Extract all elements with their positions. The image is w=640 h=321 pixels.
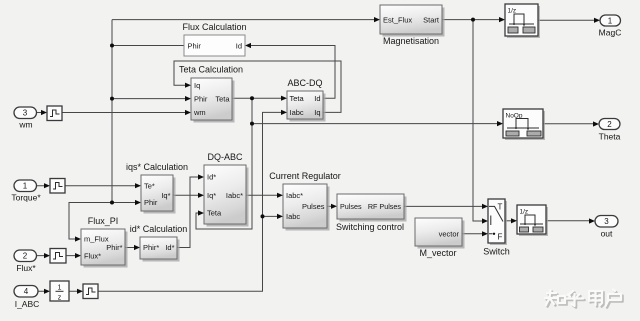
- svg-text:Torque*: Torque*: [11, 193, 41, 203]
- svg-text:Magnetisation: Magnetisation: [383, 36, 439, 46]
- input port 2 Flux*: [14, 250, 37, 273]
- svg-text:Phir*: Phir*: [106, 243, 122, 252]
- junction Teta to ABC-DQ: [250, 96, 254, 100]
- wire Phir net (Flux Calc output to Magnetisation, Teta Calc, iqs* Calc, Flux_PI): [69, 17, 380, 242]
- svg-text:Flux_PI: Flux_PI: [88, 216, 119, 226]
- wire Flux* port to Flux_PI: [37, 253, 82, 258]
- wire M_vector to Switch F input: [462, 231, 488, 236]
- svg-text:out: out: [601, 229, 613, 239]
- block iqs* Calculation: [126, 162, 188, 214]
- junction Phir bottom split: [110, 201, 114, 205]
- svg-text:Iabc*: Iabc*: [226, 191, 243, 200]
- svg-text:I_ABC: I_ABC: [15, 299, 40, 309]
- svg-text:Phir: Phir: [144, 198, 158, 207]
- svg-text:Phir: Phir: [188, 41, 202, 50]
- block Switching control: [336, 194, 407, 232]
- svg-text:Id: Id: [314, 94, 320, 103]
- svg-text:Iq*: Iq*: [207, 191, 216, 200]
- block DQ-ABC: [204, 152, 249, 227]
- svg-text:Est_Flux: Est_Flux: [383, 15, 412, 24]
- svg-text:Teta: Teta: [215, 94, 230, 103]
- svg-text:Pulses: Pulses: [340, 202, 362, 211]
- svg-text:ABC-DQ: ABC-DQ: [287, 78, 322, 88]
- wire RF Pulses to Switch T input: [404, 204, 488, 209]
- wire iqs* Calculation Iq* to DQ-ABC: [173, 193, 204, 198]
- svg-text:T: T: [498, 203, 503, 212]
- input port 4 I_ABC: [14, 286, 39, 310]
- svg-text:Flux*: Flux*: [84, 251, 101, 260]
- svg-text:Pulses: Pulses: [302, 202, 325, 211]
- block rate transition 1/z top: [505, 4, 540, 38]
- svg-text:1/z: 1/z: [520, 209, 529, 216]
- svg-text:vector: vector: [439, 230, 460, 239]
- junction Phir to Teta Calc: [110, 97, 114, 101]
- wire DQ-ABC Iabc* to Current Regulator: [246, 193, 283, 198]
- wire Current Regulator Pulses to Switching control: [327, 204, 337, 209]
- svg-text:Te*: Te*: [144, 181, 155, 190]
- svg-text:wm: wm: [193, 108, 206, 117]
- svg-text:Teta Calculation: Teta Calculation: [179, 65, 243, 75]
- block Flux_PI: [81, 216, 128, 268]
- input port 3 wm: [14, 107, 37, 130]
- svg-text:MagC: MagC: [599, 28, 622, 38]
- svg-text:4: 4: [24, 287, 29, 296]
- svg-text:2: 2: [23, 252, 28, 261]
- svg-text:Teta: Teta: [290, 94, 305, 103]
- svg-text:Teta: Teta: [207, 209, 222, 218]
- block Teta Calculation: [179, 65, 243, 123]
- svg-text:Id*: Id*: [165, 243, 174, 252]
- wire wm port to Teta Calculation: [37, 110, 192, 115]
- svg-text:Flux Calculation: Flux Calculation: [182, 22, 246, 32]
- svg-text:Switching control: Switching control: [336, 222, 404, 232]
- wire Flux_PI Phir* to id* Calculation: [125, 245, 140, 250]
- svg-text:Iq: Iq: [194, 81, 200, 90]
- svg-text:Id*: Id*: [207, 173, 216, 182]
- svg-text:RF Pulses: RF Pulses: [368, 202, 402, 211]
- wire Iq feedback ABC-DQ to Teta Calculation: [174, 61, 341, 112]
- wire NoOp to Theta port: [543, 121, 599, 126]
- svg-text:Phir: Phir: [194, 94, 208, 103]
- block Current Regulator: [269, 171, 341, 231]
- block Switch: [483, 199, 510, 257]
- svg-text:Start: Start: [423, 15, 440, 24]
- svg-text:Theta: Theta: [599, 132, 621, 142]
- block id* Calculation: [130, 224, 188, 262]
- svg-text:m_Flux: m_Flux: [84, 235, 109, 244]
- svg-text:Iq*: Iq*: [161, 191, 170, 200]
- output port 2 Theta: [599, 119, 621, 142]
- svg-text:Switch: Switch: [483, 247, 510, 257]
- svg-text:Id: Id: [236, 41, 242, 50]
- wire Torque* port to iqs* Calculation: [37, 183, 142, 188]
- wire Id feedback ABC-DQ to Flux Calculation: [245, 43, 335, 98]
- svg-text:Iabc: Iabc: [286, 212, 300, 221]
- svg-text:F: F: [498, 233, 503, 242]
- wire rate transition to out port: [546, 218, 595, 223]
- block rate transition 1/z bottom: [517, 205, 548, 236]
- pulse block after unit delay I_ABC: [83, 284, 98, 299]
- input port 1 Torque*: [11, 180, 41, 203]
- svg-text:DQ-ABC: DQ-ABC: [207, 152, 243, 162]
- svg-text:1/z: 1/z: [508, 8, 517, 15]
- svg-text:2: 2: [607, 120, 612, 129]
- svg-text:wm: wm: [18, 120, 32, 130]
- output port 3 out: [595, 216, 618, 239]
- svg-text:3: 3: [23, 109, 28, 118]
- pulse block after Flux* port: [50, 249, 66, 264]
- svg-text:1: 1: [58, 285, 62, 292]
- watermark 知乎用户: [545, 290, 623, 308]
- wire Teta net (Teta Calc to ABC-DQ, NoOp, DQ-ABC): [196, 96, 503, 229]
- output port 1 MagC: [599, 15, 622, 38]
- svg-text:Flux*: Flux*: [16, 263, 36, 273]
- svg-text:M_vector: M_vector: [419, 248, 456, 258]
- junction Start split: [471, 18, 475, 22]
- junction Iabc to Current Regulator: [261, 214, 265, 218]
- svg-text:Iq: Iq: [314, 108, 320, 117]
- wire I_ABC net (port 4 through delay to ABC-DQ Iabc and Current Regulator): [39, 110, 288, 294]
- svg-text:Phir*: Phir*: [143, 243, 159, 252]
- junction Teta to NoOp: [250, 122, 254, 126]
- svg-text:Current Regulator: Current Regulator: [269, 171, 341, 181]
- block M_vector: [415, 218, 465, 258]
- wire id* Calculation Id* to DQ-ABC: [177, 174, 204, 247]
- block NoOp: [503, 109, 545, 140]
- block Flux Calculation: [182, 22, 246, 56]
- pulse block after Torque* port: [50, 179, 65, 194]
- svg-text:iqs* Calculation: iqs* Calculation: [126, 162, 188, 172]
- svg-text:1: 1: [608, 16, 613, 25]
- wire rate transition to MagC port: [538, 18, 600, 23]
- svg-text:z: z: [58, 295, 62, 302]
- pulse block after wm port: [47, 106, 62, 121]
- svg-text:Iabc: Iabc: [290, 108, 304, 117]
- block Magnetisation: [380, 5, 445, 46]
- svg-text:id* Calculation: id* Calculation: [130, 224, 188, 234]
- block ABC-DQ: [287, 78, 326, 122]
- unit delay 1/z block after I_ABC port: [50, 281, 69, 302]
- svg-text:3: 3: [604, 217, 609, 226]
- svg-text:1: 1: [23, 182, 28, 191]
- wire Switch output to rate transition: [505, 218, 517, 223]
- junction Phir at Flux Calc output: [110, 44, 114, 48]
- svg-text:Iabc*: Iabc*: [286, 191, 303, 200]
- wire Magnetisation Start to rate transition and Switch control: [442, 17, 505, 224]
